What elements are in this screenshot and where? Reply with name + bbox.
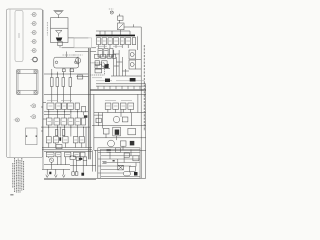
- tube box row A1: [97, 38, 101, 48]
- wire: [59, 46, 61, 48]
- speaker enclosure: [51, 18, 69, 43]
- power block tick: [113, 160, 115, 162]
- mid-right short wires: [114, 54, 129, 71]
- cap C30: [105, 79, 110, 83]
- wire: [66, 52, 68, 58]
- speaker label text: [46, 22, 48, 36]
- dark blob p5: [134, 172, 138, 176]
- row G verticals: [49, 157, 66, 170]
- bus stubs: [98, 86, 140, 89]
- wire bus: [96, 83, 146, 85]
- tube circle bottom right: [108, 140, 135, 147]
- tube box row A4: [114, 38, 119, 48]
- box p3: [133, 156, 139, 161]
- power block inner verticals: [110, 150, 136, 167]
- wire hbus: [111, 75, 141, 77]
- tube box row A5: [120, 38, 124, 48]
- box p2: [124, 153, 129, 157]
- cap C21: [104, 49, 108, 58]
- heater bus bar: [96, 35, 135, 37]
- AC receptacle box: [26, 128, 37, 145]
- wire: [68, 37, 88, 39]
- wire bus: [44, 93, 146, 95]
- box text ticks: [47, 41, 132, 155]
- wire: [76, 160, 78, 171]
- box p1: [115, 148, 120, 153]
- transistor Q1: [49, 158, 53, 162]
- wire: [72, 160, 74, 172]
- dark dashes: [102, 162, 106, 164]
- wire: [69, 87, 71, 103]
- row F verticals: [49, 143, 82, 148]
- wire: [94, 149, 146, 151]
- junction dots: [48, 74, 84, 128]
- wire stubs above bar: [96, 31, 130, 35]
- wire: [44, 151, 92, 153]
- cap C20: [98, 49, 102, 58]
- resistor R12: [62, 78, 65, 87]
- wire: [56, 87, 58, 103]
- wire: [51, 87, 53, 103]
- wire: [42, 149, 92, 151]
- wire: [62, 72, 64, 78]
- wire: [75, 51, 96, 53]
- wire: [44, 111, 88, 113]
- wire: [94, 112, 146, 114]
- mid verticals right of shield: [114, 50, 126, 76]
- resistor R30: [118, 16, 124, 20]
- component row D: [47, 118, 86, 125]
- row F text ticks: [47, 139, 83, 141]
- wire: [62, 87, 64, 103]
- wire bus dark: [90, 88, 145, 91]
- title text vertical: [143, 45, 145, 131]
- front panel outline: [7, 9, 43, 158]
- cap C5: [105, 64, 109, 68]
- component row G: [46, 152, 85, 157]
- resistor R10: [51, 78, 54, 87]
- wire: [42, 147, 92, 149]
- cap a: [72, 172, 75, 176]
- jack J2: [30, 115, 36, 119]
- fuse box X: [118, 165, 124, 170]
- wire: [86, 160, 88, 165]
- bottom border: [44, 177, 146, 179]
- speaker SP1: [54, 11, 64, 18]
- tube box row A6: [126, 38, 131, 48]
- tube circle mid-right: [113, 116, 128, 122]
- wire right border: [140, 27, 142, 178]
- dark mark: [84, 115, 88, 118]
- box p4: [129, 166, 135, 171]
- fuse holder: [30, 104, 36, 108]
- connector plug: [56, 38, 63, 46]
- wire: [136, 59, 142, 61]
- wire: [44, 73, 88, 75]
- wire: [62, 47, 97, 49]
- wire: [76, 75, 88, 77]
- wire: [94, 137, 146, 139]
- small box mid-right: [96, 118, 101, 123]
- wire: [120, 30, 122, 35]
- wire: [118, 20, 120, 23]
- plug arrow 1: [46, 169, 49, 177]
- resistor R11: [56, 78, 59, 87]
- cap C22: [110, 49, 114, 58]
- page number: [10, 194, 13, 196]
- verticals right grid: [94, 84, 146, 179]
- component row F: [46, 137, 84, 143]
- wire: [136, 68, 142, 70]
- wire: [51, 69, 53, 78]
- component row C right: [105, 103, 133, 109]
- label smudge under row A: [97, 45, 124, 47]
- knob jack 4: [31, 40, 36, 44]
- faint chassis box: [74, 38, 92, 48]
- extra verticals rows: [60, 109, 131, 147]
- border ticks: [41, 102, 47, 131]
- resistor box: [77, 75, 82, 79]
- wire: [44, 113, 70, 115]
- tube box row A2: [102, 38, 107, 48]
- dark label block: [107, 150, 111, 153]
- row D verticals: [49, 109, 84, 136]
- slider slot: [15, 11, 23, 62]
- rounded connector: [123, 171, 130, 176]
- bottom mid verticals: [93, 150, 98, 178]
- cap C31: [130, 78, 136, 82]
- wire: [56, 72, 58, 78]
- cap dark: [49, 172, 51, 175]
- knob jack 2: [31, 22, 36, 26]
- panel inner border line: [9, 9, 11, 158]
- diode box D1: [118, 23, 125, 30]
- pilot jack: [31, 57, 38, 62]
- volume pot: [73, 55, 83, 65]
- terminal strip b: [70, 69, 74, 72]
- schematic left border wire: [42, 10, 44, 169]
- rectifier tube upper: [129, 50, 136, 59]
- label smudge bus: [92, 78, 144, 81]
- shield box: [90, 63, 105, 75]
- cap b: [75, 172, 78, 176]
- transformer T1 on panel: [17, 70, 39, 95]
- power block outline: [98, 148, 140, 179]
- bus: [42, 168, 70, 170]
- jack J3: [14, 118, 20, 122]
- wire: [70, 165, 96, 167]
- knob jack 1: [31, 13, 36, 17]
- wire: [137, 36, 139, 50]
- rectifier tube lower: [129, 60, 136, 69]
- bus: [41, 126, 90, 128]
- terminal strip a: [62, 69, 65, 72]
- plug arrow 3: [62, 169, 65, 177]
- shielded cable run: [88, 48, 90, 159]
- label smudge row C: [47, 99, 132, 101]
- tube box row A7: [132, 38, 135, 45]
- knob jack 3: [31, 31, 36, 35]
- pilot lamp: [109, 9, 114, 14]
- knob jack 5: [31, 49, 36, 53]
- wire: [124, 26, 141, 28]
- notes text block: [13, 158, 24, 193]
- small boxes under row B: [95, 61, 100, 66]
- wire bus: [96, 85, 146, 87]
- box above bus: [56, 145, 62, 149]
- component row C left: [47, 103, 79, 109]
- cap dark c: [81, 173, 84, 176]
- wire: [44, 164, 70, 166]
- slider label: [18, 33, 21, 38]
- cap box: [82, 107, 86, 112]
- wire: [118, 14, 120, 16]
- wire: [69, 68, 71, 78]
- resistor R13: [69, 78, 72, 87]
- vertical resistors mid: [55, 130, 58, 136]
- wire: [82, 160, 84, 172]
- bus: [92, 125, 146, 127]
- speaker SP2: [56, 31, 63, 37]
- output transformer T2: [54, 55, 79, 68]
- plug arrow 2: [54, 169, 57, 177]
- boxes row right part: [70, 156, 87, 160]
- mid right cluster: [103, 127, 135, 136]
- row B extra boxes: [95, 54, 116, 58]
- tube box row A3: [108, 38, 112, 48]
